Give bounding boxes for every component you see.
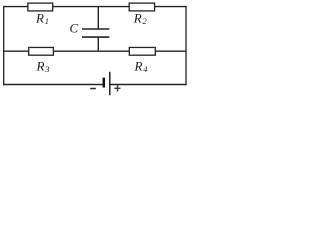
plus label bbox=[114, 85, 120, 91]
minus label bbox=[90, 88, 96, 90]
wire bottom right bbox=[110, 84, 186, 86]
svg-text:R1: R1 bbox=[35, 10, 49, 26]
svg-text:R4: R4 bbox=[134, 58, 149, 74]
capacitor C bbox=[70, 7, 110, 52]
battery negative plate (short thick) bbox=[103, 78, 106, 88]
svg-text:C: C bbox=[70, 21, 79, 36]
battery positive plate (long thin) bbox=[109, 72, 111, 95]
resistor R4 bbox=[129, 47, 155, 55]
svg-text:R2: R2 bbox=[133, 10, 148, 26]
svg-text:R3: R3 bbox=[36, 58, 50, 74]
wire top bbox=[3, 6, 187, 8]
wire right rail bbox=[185, 6, 187, 85]
resistor R3 bbox=[29, 47, 54, 55]
resistor R2 bbox=[129, 3, 154, 11]
wire left rail bbox=[3, 6, 5, 85]
resistor R1 bbox=[28, 3, 53, 11]
wire middle bbox=[3, 50, 187, 52]
wire bottom left bbox=[3, 84, 103, 86]
